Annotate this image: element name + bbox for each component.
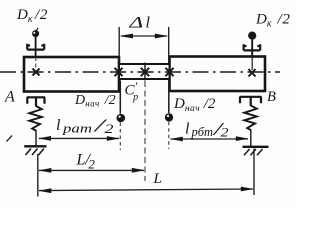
arrowhead L/2 right	[132, 168, 145, 173]
roll left barrel body	[24, 57, 119, 92]
reduced middle neck section	[119, 64, 170, 79]
dimension l_rab/2 left line	[39, 137, 119, 139]
centre dashed extension line	[144, 81, 146, 181]
dimension L line	[39, 189, 253, 191]
dimension l_rab/2 right line	[171, 138, 249, 140]
indicator yoke top-left	[27, 44, 44, 50]
indicator gauge head top-right	[248, 31, 256, 70]
ground at B	[243, 147, 269, 156]
arrowhead delta-l right	[155, 34, 169, 39]
svg-text:l: l	[56, 117, 61, 134]
support bracket A	[27, 97, 45, 106]
dimension L/2 line	[39, 169, 144, 171]
dimension delta-l extension lines	[119, 27, 169, 63]
spring B	[244, 106, 256, 131]
svg-text:Δ: Δ	[128, 14, 143, 31]
arrowhead l_rab/2 right-right	[236, 136, 249, 141]
lower gauge stem at right neck junction	[165, 81, 173, 150]
arrowhead l_rab/2 right-left	[170, 137, 183, 142]
svg-text:B: B	[267, 89, 276, 105]
support post A	[35, 130, 37, 146]
centerline axis	[0, 71, 280, 73]
arrowhead l_rab/2 left-left	[38, 136, 51, 141]
arrowhead L right	[241, 187, 254, 192]
label l_rab/2 right	[185, 119, 229, 140]
svg-text:l: l	[146, 15, 151, 32]
support bracket B	[240, 97, 262, 106]
arrowhead l_rab/2 left-right	[107, 136, 120, 141]
arrowhead delta-l left	[120, 34, 134, 39]
svg-text:рат: рат	[62, 122, 92, 136]
arrowhead L/2 left	[38, 168, 51, 173]
lower gauge stem at left neck junction	[117, 81, 126, 151]
dimension delta-l line	[121, 35, 167, 37]
svg-text:рбт: рбт	[191, 125, 213, 139]
indicator gauge head top-left	[32, 28, 39, 70]
ground at A	[24, 146, 46, 155]
support post B	[250, 130, 252, 147]
label l_rab/2 left	[56, 116, 114, 137]
extension line below A	[37, 154, 39, 197]
spring A	[29, 106, 42, 131]
extension line below B	[253, 149, 255, 196]
svg-text:2: 2	[221, 125, 230, 140]
node X mark left neck junction	[115, 68, 123, 76]
mid vertical mark at roll centre	[144, 63, 146, 81]
svg-text:2: 2	[105, 121, 115, 136]
arrowhead L left	[38, 188, 51, 193]
indicator yoke top-right	[244, 44, 261, 50]
node X mark at A	[33, 69, 40, 76]
svg-text:A: A	[4, 89, 15, 106]
svg-text:L: L	[153, 171, 162, 187]
node X mark at B	[249, 69, 256, 77]
node X mark centre	[141, 68, 149, 76]
roll right barrel body	[170, 57, 266, 92]
node X mark right neck junction	[165, 68, 173, 76]
stray hatch tick far left	[7, 136, 13, 142]
svg-text:l: l	[185, 120, 190, 137]
